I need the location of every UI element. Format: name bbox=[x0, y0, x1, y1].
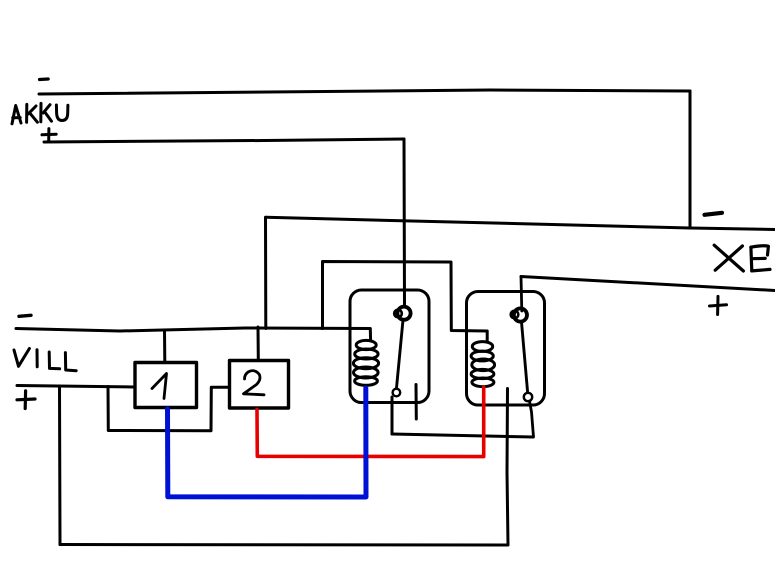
wire VILL positive detour to box2 bbox=[108, 387, 229, 431]
wire relay K1 lever down to link bbox=[391, 397, 394, 434]
relay K1 lever contact circle bbox=[393, 389, 401, 397]
wire AKKU negative right drop bbox=[689, 91, 692, 228]
label AKKU minus sign bbox=[40, 77, 49, 81]
label digit 2 bbox=[244, 371, 265, 395]
wire AKKU positive bbox=[44, 139, 404, 142]
relay K1 coil bbox=[353, 340, 378, 385]
relay K1 pivot bbox=[397, 307, 410, 320]
wire relay K2 lever down to link bbox=[530, 401, 534, 437]
relay K2 pivot doodle bbox=[511, 311, 519, 319]
wire blue box1 to relay K1 coil bbox=[168, 388, 367, 497]
label XE bbox=[714, 245, 770, 271]
wire VILL positive bbox=[17, 386, 134, 388]
wire VILL positive drop to bottom bbox=[58, 386, 62, 545]
relay K2 lever bbox=[522, 322, 528, 391]
wire XE negative bus bbox=[266, 217, 775, 229]
wire box2 top to VILL negative bbox=[257, 327, 260, 360]
label VILL plus sign bbox=[17, 391, 35, 409]
wire link between relay levers bbox=[392, 434, 533, 437]
label digit 1 bbox=[152, 374, 167, 399]
label XE plus sign bbox=[710, 296, 727, 314]
label VILL minus sign bbox=[19, 315, 31, 316]
wire XE positive bbox=[521, 277, 775, 291]
wire AKKU negative horizontal bbox=[39, 90, 690, 94]
label AKKU bbox=[12, 103, 68, 123]
label AKKU plus sign bbox=[42, 129, 56, 142]
wire box1 top to VILL negative bbox=[163, 331, 166, 362]
relay K1 lever bbox=[397, 320, 404, 388]
relay K2 pivot bbox=[514, 308, 527, 321]
wire riser VILL negative to XE bus bbox=[264, 217, 267, 328]
relay K2 lever contact circle bbox=[524, 393, 532, 401]
wire VILL negative bbox=[16, 328, 371, 341]
label VILL bbox=[14, 349, 76, 371]
wire riser and run VILL negative to relay K2 coil bbox=[323, 262, 488, 343]
box unit 2 bbox=[230, 361, 289, 409]
relay K2 coil bbox=[471, 342, 495, 387]
wire relay K2 fixed contact down to bottom bbox=[507, 389, 508, 546]
wire bottom run to relay K2 contact bbox=[60, 543, 508, 547]
relay K1 fixed contact stub bbox=[415, 385, 418, 420]
label XE minus sign bbox=[705, 213, 723, 215]
wire XE positive drop to relay K2 common bbox=[520, 277, 524, 312]
wire red box2 to relay K2 coil bbox=[257, 387, 484, 457]
relay K1 body bbox=[350, 290, 429, 403]
relay K2 body bbox=[467, 292, 545, 406]
box unit 1 bbox=[135, 363, 197, 408]
wire AKKU positive drop to relay K1 common bbox=[403, 139, 407, 306]
relay K1 pivot doodle bbox=[394, 310, 402, 318]
